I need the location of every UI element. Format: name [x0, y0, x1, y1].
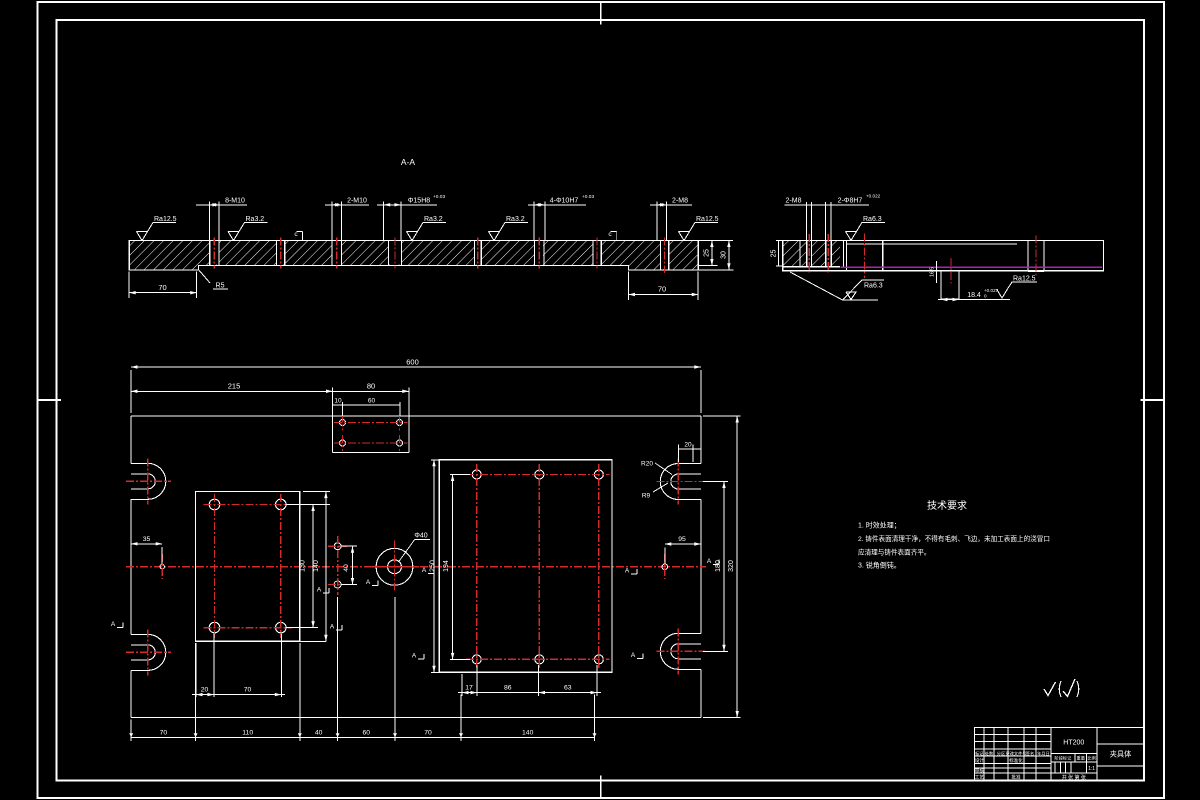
- svg-text:+0.027: +0.027: [984, 288, 999, 293]
- dim 10 60 boss: [333, 398, 401, 417]
- dim 35: [131, 536, 162, 564]
- surface check mark: [1044, 682, 1056, 696]
- svg-text:+0.03: +0.03: [433, 194, 445, 200]
- label phi40 leader: [399, 533, 430, 562]
- surface Ra12.5 left: [137, 223, 177, 241]
- centering mark left: [38, 399, 61, 401]
- svg-text:批准: 批准: [1011, 774, 1021, 781]
- section M10 hole 3: [332, 237, 342, 268]
- svg-text:A: A: [422, 567, 427, 574]
- svg-text:A: A: [707, 558, 712, 565]
- svg-text:194: 194: [443, 560, 450, 572]
- svg-text:R20: R20: [641, 461, 653, 468]
- svg-text:2. 铸件表面清理干净，不得有毛刺、飞边，未加工表面上的浇冒: 2. 铸件表面清理干净，不得有毛刺、飞边，未加工表面上的浇冒口: [858, 534, 1050, 543]
- svg-text:2-M10: 2-M10: [347, 197, 367, 204]
- center bore phi40: [371, 541, 419, 593]
- svg-text:10: 10: [334, 398, 342, 405]
- svg-text:A: A: [111, 621, 116, 628]
- svg-text:25: 25: [704, 249, 711, 257]
- svg-text:2-Φ8H7: 2-Φ8H7: [838, 197, 863, 204]
- bolt pattern 1 rect: [196, 492, 300, 642]
- dim 30 thickness: [698, 241, 733, 270]
- centerline hole B3: [1035, 236, 1037, 277]
- centerline bore B: [864, 234, 866, 279]
- svg-text:处数: 处数: [985, 750, 994, 757]
- svg-text:应清理与铸件表面齐平。: 应清理与铸件表面齐平。: [858, 548, 931, 557]
- centerline drop slot: [950, 258, 952, 284]
- clamp slot bottom-right: [656, 628, 705, 674]
- boss outline: [333, 388, 409, 453]
- svg-text:审核: 审核: [975, 767, 985, 774]
- surface Ra3.2 a: [228, 223, 268, 241]
- svg-text:Ra3.2: Ra3.2: [246, 216, 265, 223]
- svg-text:分区: 分区: [997, 750, 1005, 757]
- dim 2-M10: [325, 197, 369, 240]
- surface Ra12.5 view B bottom: [997, 276, 1038, 299]
- title block header row: [975, 750, 1050, 757]
- section mark left: [111, 621, 123, 628]
- bolt pattern 1 holes 4x: [204, 494, 293, 638]
- svg-text:A: A: [412, 653, 417, 660]
- svg-text:Φ40: Φ40: [414, 533, 427, 540]
- boss holes 4x: [334, 415, 408, 452]
- svg-text:A: A: [317, 587, 322, 594]
- svg-text:A: A: [330, 624, 335, 631]
- section B bore walls: [845, 240, 847, 270]
- dim 16.5 view B: [930, 261, 937, 283]
- svg-text:HT200: HT200: [1063, 740, 1084, 747]
- svg-text:8-M10: 8-M10: [225, 197, 245, 204]
- section B hole gap 1: [807, 241, 811, 266]
- svg-text:140: 140: [313, 560, 320, 572]
- dim 2-M8 view B: [785, 197, 870, 240]
- svg-text:Ra6.3: Ra6.3: [864, 283, 883, 290]
- dim 4-phi10H7: [528, 194, 594, 240]
- section mark c1: [366, 579, 378, 586]
- dim 8-M10: [196, 197, 247, 240]
- svg-text:设计: 设计: [975, 757, 985, 764]
- svg-text:+0.022: +0.022: [866, 194, 881, 199]
- magenta datum line: [841, 266, 1102, 268]
- svg-text:Ra3.2: Ra3.2: [424, 216, 443, 223]
- svg-text:2-M8: 2-M8: [786, 197, 802, 204]
- svg-text:A: A: [366, 579, 371, 586]
- dim 25 view B: [771, 240, 783, 266]
- dim 180 slots: [703, 482, 728, 652]
- plan view plate outline: [131, 416, 701, 718]
- svg-text:215: 215: [228, 382, 241, 391]
- svg-text:Ra3.2: Ra3.2: [506, 216, 525, 223]
- section dia10 hole 6: [535, 237, 544, 268]
- svg-text:工艺: 工艺: [975, 775, 985, 780]
- svg-text:标记: 标记: [975, 750, 984, 757]
- centerline hole B2: [827, 234, 829, 273]
- svg-text:技术要求: 技术要求: [927, 499, 967, 512]
- svg-text:70: 70: [424, 729, 432, 736]
- svg-text:3. 锐角倒钝。: 3. 锐角倒钝。: [858, 561, 901, 570]
- svg-text:Ra6.3: Ra6.3: [863, 216, 882, 223]
- dim 20 70 pattern1: [192, 634, 285, 697]
- svg-text:86: 86: [504, 685, 512, 692]
- svg-text:70: 70: [244, 687, 252, 694]
- section M10 hole 2: [277, 237, 285, 268]
- dim 320 plate: [703, 416, 741, 718]
- locating hole right: [662, 554, 668, 579]
- svg-text:17: 17: [465, 685, 473, 692]
- dim 25 thickness: [698, 241, 733, 266]
- svg-text:250: 250: [430, 560, 437, 572]
- svg-text:2-M8: 2-M8: [672, 197, 688, 204]
- dim 194 pattern2: [443, 475, 470, 660]
- dim 250 pattern2: [430, 460, 440, 673]
- dim 17 86 63 pattern2: [458, 665, 601, 696]
- svg-text:+0.03: +0.03: [582, 194, 594, 200]
- bolt pattern 2 rect: [439, 460, 612, 673]
- svg-text:95: 95: [678, 536, 686, 543]
- svg-text:A: A: [625, 568, 630, 575]
- svg-text:R9: R9: [642, 493, 651, 500]
- svg-text:Ra12.5: Ra12.5: [696, 216, 719, 223]
- dim 70 right: [629, 272, 699, 300]
- svg-text:比例: 比例: [1087, 755, 1095, 762]
- section mark p1a: [317, 587, 329, 594]
- svg-text:1:1: 1:1: [1088, 766, 1095, 772]
- surface check mark parens: [1059, 679, 1079, 697]
- svg-text:70: 70: [160, 729, 168, 736]
- clamp slot top-right: [656, 459, 705, 505]
- svg-text:110: 110: [242, 729, 253, 736]
- svg-text:Φ15H8: Φ15H8: [408, 197, 430, 204]
- section M10 hole 1: [210, 237, 219, 268]
- dim phi15H8: [377, 194, 445, 240]
- svg-text:更改文件号: 更改文件号: [1006, 750, 1027, 757]
- dim 80: [333, 382, 409, 393]
- svg-text:0: 0: [984, 294, 987, 299]
- surface Ra3.2 c: [489, 223, 529, 241]
- bolt pattern 2 holes 6x: [466, 464, 610, 670]
- svg-text:夹具体: 夹具体: [1110, 750, 1132, 759]
- svg-text:A: A: [631, 652, 636, 659]
- svg-text:130: 130: [300, 560, 307, 572]
- svg-text:320: 320: [728, 560, 735, 572]
- svg-text:1. 时效处理；: 1. 时效处理；: [858, 521, 901, 530]
- svg-text:阶段标记: 阶段标记: [1055, 755, 1073, 762]
- svg-text:共 张 第 张: 共 张 第 张: [1062, 774, 1086, 781]
- surface Ra12.5 right: [679, 223, 719, 241]
- section dia10 hole 7: [593, 237, 601, 268]
- dim 20 slot: [678, 441, 701, 462]
- svg-text:30: 30: [721, 251, 728, 259]
- svg-text:20: 20: [684, 441, 692, 448]
- svg-text:70: 70: [658, 285, 666, 294]
- svg-text:140: 140: [522, 729, 534, 736]
- svg-text:18.4: 18.4: [967, 292, 981, 299]
- svg-text:16.5: 16.5: [930, 267, 936, 277]
- label R20 leader: [641, 461, 672, 475]
- section mark p1b: [330, 624, 342, 631]
- chamfer c1: [294, 231, 302, 240]
- svg-text:4-Φ10H7: 4-Φ10H7: [550, 197, 579, 204]
- dim 215: [131, 382, 333, 393]
- svg-text:A-A: A-A: [401, 157, 416, 167]
- svg-text:25: 25: [771, 250, 778, 258]
- dim 70 left: [129, 272, 197, 299]
- svg-text:600: 600: [406, 358, 419, 367]
- dim 2-phi8H7 view B: [826, 194, 881, 241]
- surface Ra6.3 view B bottom: [790, 272, 884, 300]
- centering mark bottom: [600, 775, 602, 798]
- svg-text:40: 40: [343, 564, 350, 572]
- dim 130 pattern1: [286, 505, 330, 628]
- section B drop slot: [941, 271, 959, 299]
- locating hole left: [160, 554, 164, 579]
- surface Ra3.2 b: [407, 223, 447, 241]
- section A-A bar outline with hatch: [129, 241, 698, 270]
- fillet R5 leader: [199, 270, 228, 290]
- svg-text:60: 60: [363, 729, 371, 736]
- svg-text:Ra12.5: Ra12.5: [154, 216, 177, 223]
- svg-text:180: 180: [715, 560, 722, 572]
- svg-text:年月日: 年月日: [1037, 750, 1050, 757]
- svg-text:80: 80: [367, 382, 375, 391]
- centerline hole B1: [808, 234, 810, 273]
- section mark p2b: [631, 652, 643, 659]
- section B inner wall: [799, 240, 801, 266]
- dim 140 pattern1: [300, 492, 330, 642]
- chamfer c2: [608, 231, 616, 240]
- locating holes 2x: [328, 536, 347, 595]
- section mark p2a: [625, 568, 637, 575]
- section mark right: [707, 558, 719, 565]
- svg-text:40: 40: [315, 729, 323, 736]
- clamp slot top-left: [126, 458, 171, 504]
- clamp slot bottom-left: [126, 629, 171, 675]
- svg-text:标准化: 标准化: [1009, 757, 1023, 764]
- svg-text:Ra12.5: Ra12.5: [1013, 276, 1036, 283]
- svg-text:63: 63: [564, 685, 572, 692]
- section M8 hole 8: [660, 237, 668, 273]
- section M10 hole 5: [475, 237, 482, 268]
- svg-text:20: 20: [201, 687, 209, 694]
- label R9 leader: [642, 483, 668, 500]
- dim 600: [131, 358, 701, 414]
- svg-text:重量: 重量: [1077, 755, 1085, 762]
- bottom dimension chain 70 110 40 60 70 140: [129, 597, 596, 741]
- svg-text:签名: 签名: [1026, 750, 1034, 757]
- section mark c3: [422, 567, 434, 574]
- section dia15 hole 4: [389, 237, 402, 268]
- title block grid: [975, 728, 1145, 781]
- surface Ra6.3 view B top: [846, 222, 886, 240]
- section B hatch left block: [783, 240, 840, 266]
- centering mark right: [1141, 399, 1164, 401]
- section B bar outline: [783, 240, 1104, 270]
- centering mark top: [600, 2, 602, 25]
- svg-text:R5: R5: [216, 283, 225, 290]
- section B hole gap 2: [826, 241, 830, 266]
- svg-text:35: 35: [143, 536, 151, 543]
- plan plate horizontal centerline: [126, 566, 706, 568]
- section mark c2: [412, 653, 424, 660]
- dim 18.4 view B: [938, 288, 1010, 301]
- svg-text:70: 70: [158, 283, 166, 292]
- dim 2-M8: [650, 197, 692, 240]
- dim 40 locating holes: [341, 546, 357, 584]
- section B right hole walls: [1027, 240, 1029, 271]
- svg-text:60: 60: [368, 398, 376, 405]
- dim 95: [665, 536, 701, 564]
- section B recess line: [846, 243, 1017, 245]
